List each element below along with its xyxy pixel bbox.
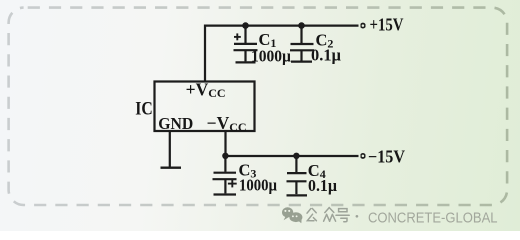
svg-text:0.1µ: 0.1µ <box>311 46 341 65</box>
svg-text:1000µ: 1000µ <box>251 47 291 66</box>
svg-text:−15V: −15V <box>368 146 405 166</box>
svg-text:−VCC: −VCC <box>207 113 247 134</box>
svg-text:GND: GND <box>158 114 193 133</box>
svg-text:IC: IC <box>135 99 153 119</box>
svg-text:1000µ: 1000µ <box>239 176 277 195</box>
svg-text:+15V: +15V <box>370 15 404 35</box>
svg-text:CONCRETE-GLOBAL: CONCRETE-GLOBAL <box>368 210 498 226</box>
svg-text:0.1µ: 0.1µ <box>308 176 337 195</box>
